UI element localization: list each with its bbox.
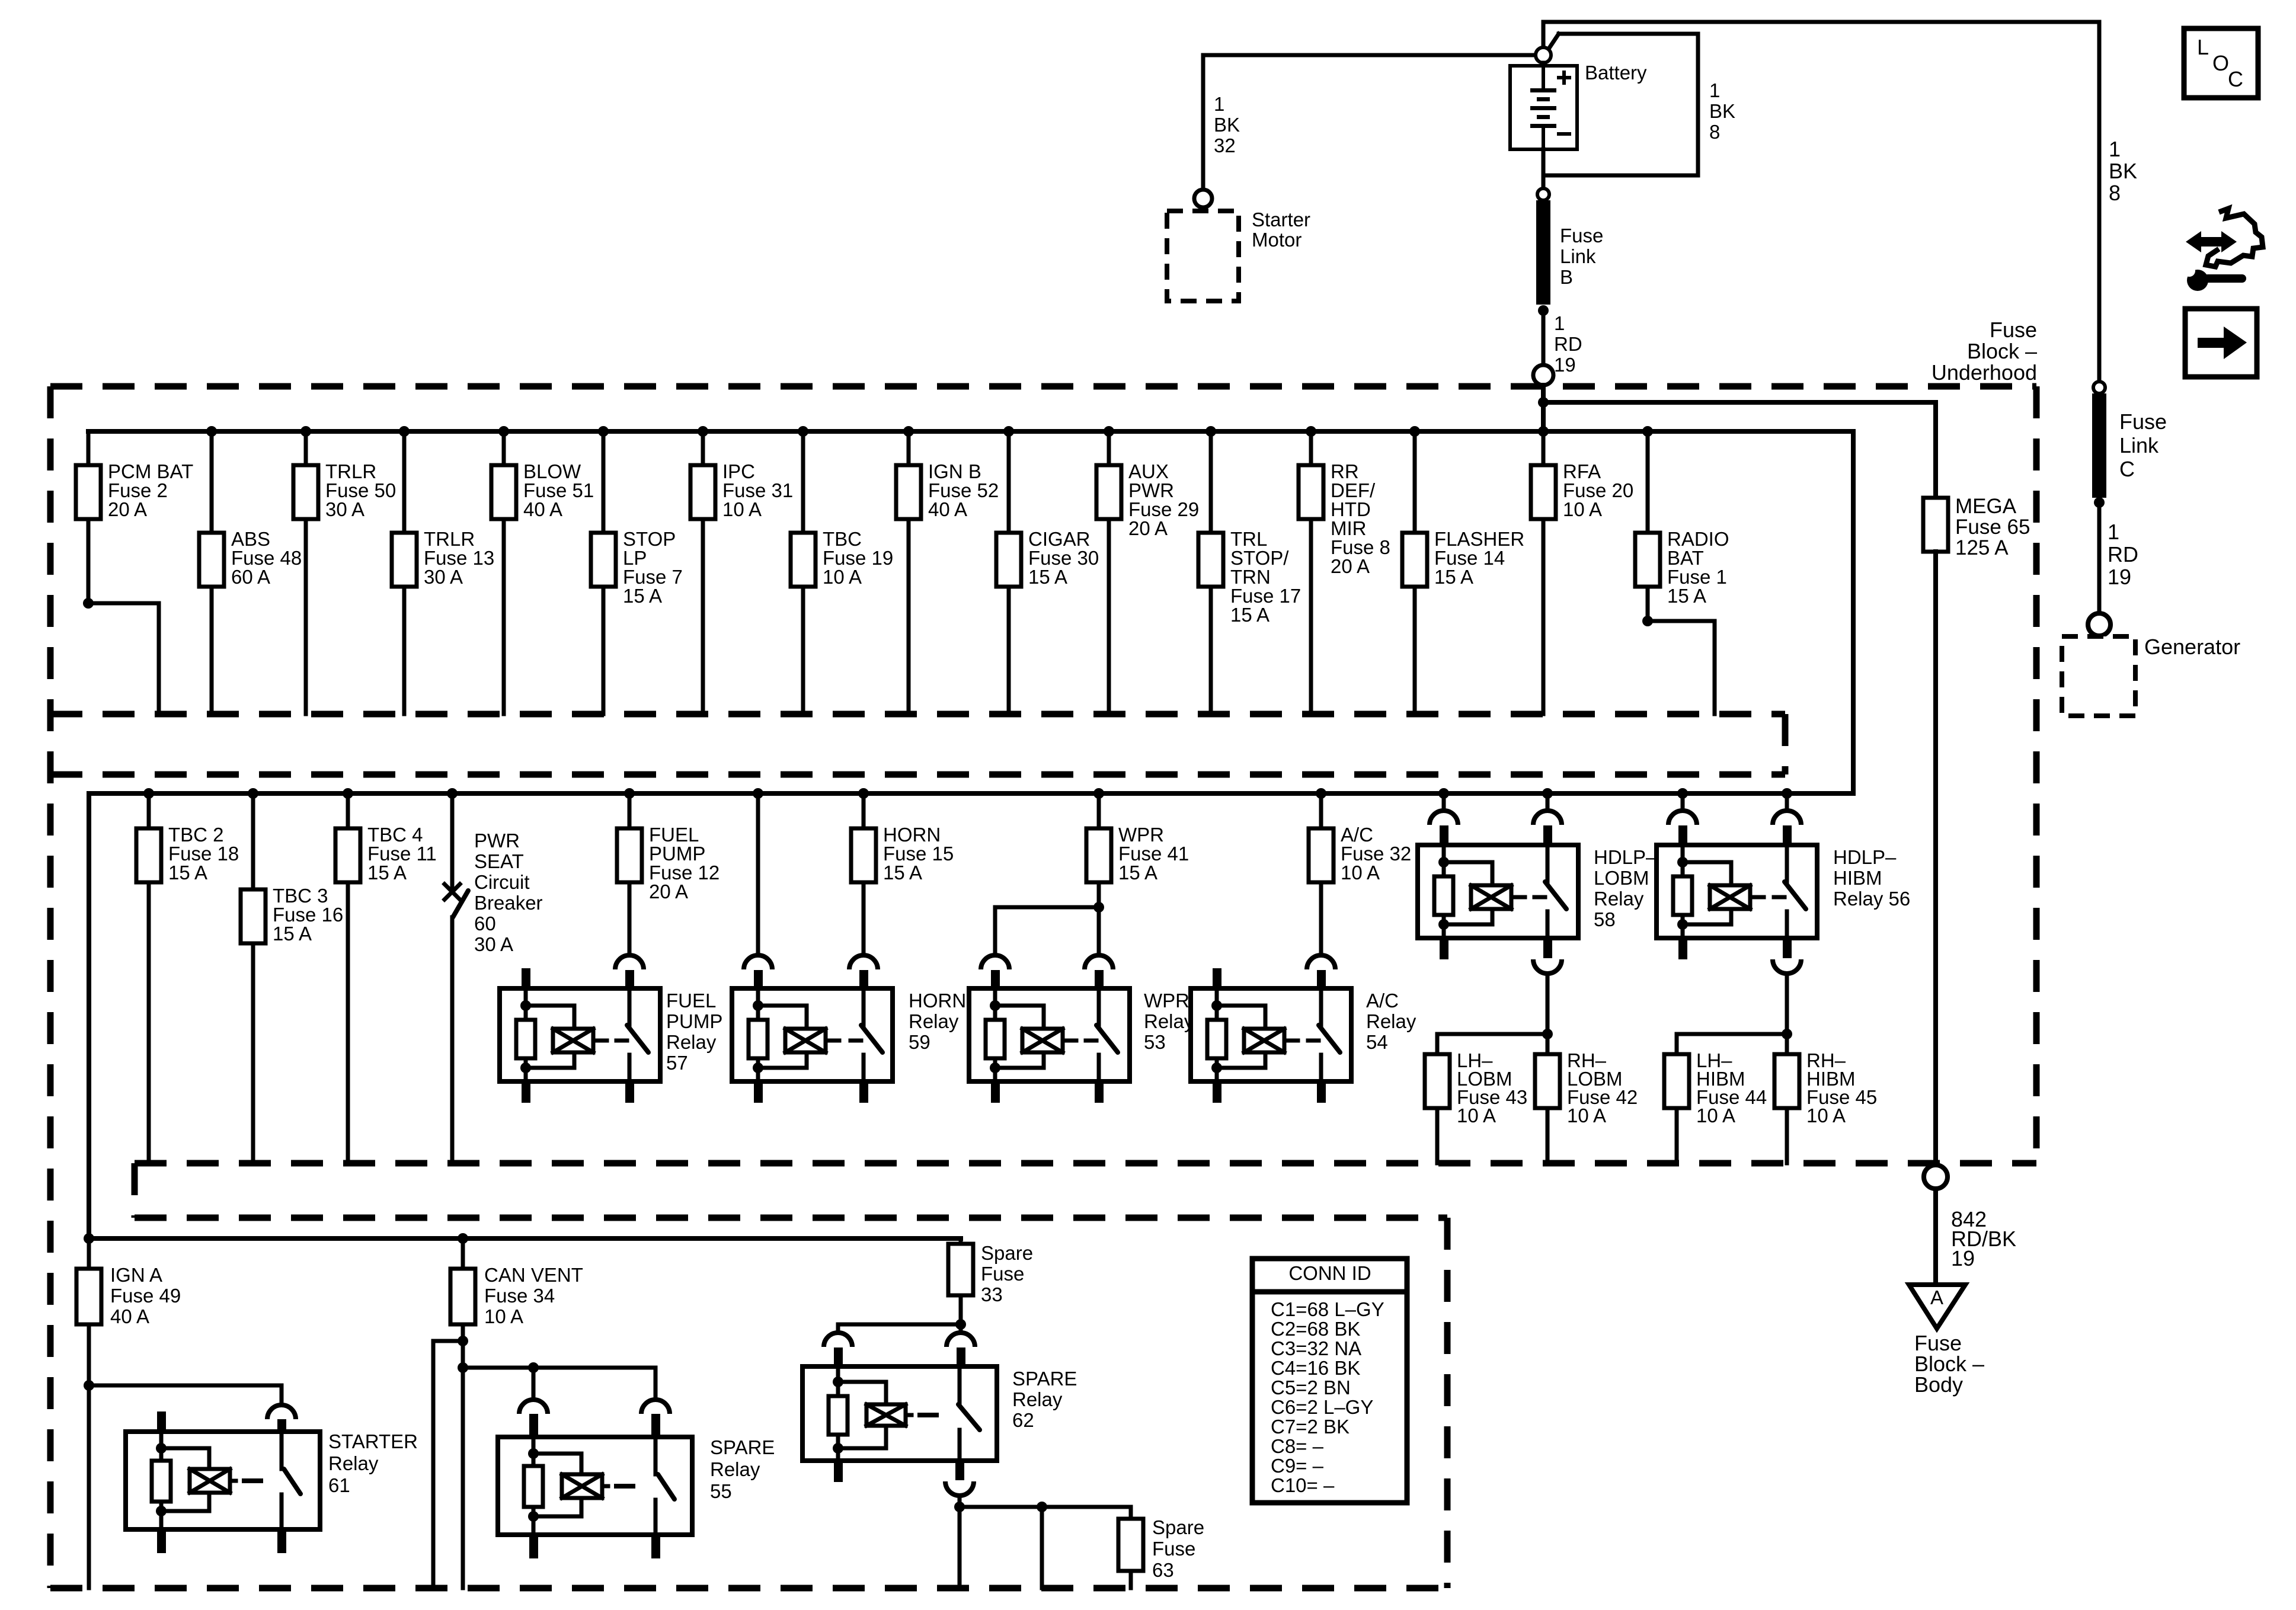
fuse HORN Fuse 15 (851, 828, 876, 882)
wire relay 62 output down (958, 1507, 962, 1588)
relay A/C Relay 54 box (1191, 988, 1351, 1081)
svg-text:CAN VENT: CAN VENT (484, 1264, 583, 1286)
fuse CAN VENT Fuse 34 (450, 1269, 475, 1324)
relay WPR Relay 53 coil loop wire (995, 1006, 1044, 1029)
junction bus2 at FUEL PUMP Fuse 12 (624, 788, 635, 799)
wire TBC 2 Fuse 18 output (147, 882, 151, 1163)
svg-text:B: B (1560, 266, 1573, 288)
relay SPARE Relay 62 box (802, 1366, 997, 1461)
relay HORN Relay 59 coil bottom junction (753, 1062, 763, 1073)
fuse LH-LOBM Fuse 43 (1425, 1054, 1450, 1108)
wire A/C Fuse 32 feed (1319, 793, 1323, 828)
relay HDLP-LOBM Relay 58 coil loop wire (1444, 862, 1492, 885)
svg-text:STARTER: STARTER (328, 1430, 418, 1452)
fuse IPC Fuse 31 (690, 465, 715, 519)
wire MEGA fuse feed (1933, 402, 1938, 498)
wire relay 58 coil feed (1442, 793, 1446, 811)
relay HDLP-LOBM Relay 58 box (1418, 845, 1578, 938)
connector arc relay 58 coil (1430, 811, 1458, 825)
connector circle at fuse block underhood (1533, 365, 1553, 385)
fuse block underhood dashed border bottom (50, 1585, 1447, 1592)
wire spare fuse 33 feed (959, 1238, 963, 1241)
svg-text:1: 1 (1214, 93, 1224, 115)
svg-text:15 A: 15 A (367, 862, 407, 884)
relay SPARE Relay 62 coil-switch dashed link (917, 1413, 948, 1417)
fuse link C (2092, 393, 2106, 498)
svg-text:15 A: 15 A (168, 862, 207, 884)
fuse link B (1536, 200, 1550, 305)
svg-text:20 A: 20 A (108, 498, 147, 520)
svg-text:10 A: 10 A (1806, 1105, 1846, 1126)
svg-text:LOBM: LOBM (1594, 867, 1649, 889)
wire TRLR Fuse 50 feed (304, 431, 308, 465)
fuse PCM BAT Fuse 2 (76, 465, 101, 519)
relay HDLP-HIBM Relay 56 coil resistor (1673, 876, 1692, 915)
wire relay 55 switch drop (654, 1368, 658, 1400)
battery terminal node (1536, 47, 1551, 63)
relay A/C Relay 54 coil solenoid symbol (1244, 1029, 1284, 1052)
wire relay 55 coil drop (532, 1368, 536, 1400)
svg-text:Relay: Relay (710, 1458, 760, 1480)
junction headlamp high beam split (1782, 1029, 1792, 1039)
relay SPARE Relay 62 switch (958, 1366, 962, 1404)
pin relay 56 switch bottom (1783, 938, 1792, 958)
relay HORN Relay 59 switch (862, 988, 866, 1025)
svg-text:HDLP–: HDLP– (1833, 846, 1897, 868)
junction relay 62 output (954, 1502, 965, 1512)
junction bus1 at TBC Fuse 19 (798, 426, 808, 437)
fuse BLOW Fuse 51 (491, 465, 516, 519)
relay FUEL PUMP Relay 57 box (500, 988, 660, 1081)
relay WPR Relay 53 coil resistor (986, 1020, 1005, 1058)
wire branch to LH-LOBM fuse (1437, 1034, 1547, 1054)
relay SPARE Relay 62 coil bottom junction (833, 1443, 843, 1454)
svg-text:54: 54 (1366, 1031, 1388, 1053)
junction PCM BAT output (83, 598, 94, 609)
wire STOP LP Fuse 7 feed (602, 431, 606, 533)
fuse block underhood dashed separator row2 top (50, 772, 1785, 778)
wire RADIO BAT Fuse 1 output (1646, 587, 1650, 621)
svg-text:Relay: Relay (328, 1452, 379, 1474)
relay STARTER Relay 61 coil lead (230, 1479, 236, 1483)
wire relay 58 output (1546, 974, 1550, 1034)
svg-text:59: 59 (909, 1031, 930, 1053)
wire IGN B Fuse 52 output (907, 519, 911, 714)
generator terminal (2088, 613, 2110, 636)
svg-text:33: 33 (981, 1283, 1003, 1305)
svg-text:Breaker: Breaker (474, 892, 543, 914)
relay HDLP-HIBM Relay 56 coil lead (1750, 895, 1764, 900)
junction bus3 at IGN A (84, 1233, 94, 1244)
relay STARTER Relay 61 coil solenoid symbol (190, 1469, 230, 1493)
svg-text:15 A: 15 A (1118, 862, 1157, 884)
relay FUEL PUMP Relay 57 coil solenoid symbol (553, 1029, 593, 1052)
pin relay 59 coil bottom (754, 1081, 763, 1103)
wire to RH-LOBM fuse (1546, 1034, 1550, 1054)
wire relay 58 switch feed (1546, 793, 1550, 811)
svg-text:15 A: 15 A (1434, 566, 1473, 588)
relay HDLP-HIBM Relay 56 coil solenoid symbol (1710, 885, 1750, 909)
wire RH-HIBM output (1785, 1108, 1789, 1163)
relay HORN Relay 59 coil loop wire (758, 1006, 807, 1029)
direction legend box (2185, 309, 2257, 377)
wire branch to relay 62 coil (838, 1324, 961, 1333)
svg-text:Block –: Block – (1967, 339, 2037, 363)
wire TBC 4 Fuse 11 output (346, 882, 350, 1163)
svg-text:19: 19 (1951, 1246, 1975, 1270)
wire IGN A fuse feed (87, 1238, 91, 1269)
battery cells symbol (1542, 66, 1545, 88)
junction bus2 at relay 58 coil (1438, 788, 1449, 799)
junction bus1 at CIGAR Fuse 30 (1003, 426, 1014, 437)
svg-text:C1=68 L–GY: C1=68 L–GY (1271, 1298, 1384, 1320)
wire relay 56 coil feed (1681, 793, 1685, 811)
CONN ID table header separator (1252, 1289, 1407, 1295)
svg-text:Fuse 34: Fuse 34 (484, 1285, 555, 1307)
svg-text:Underhood: Underhood (1932, 360, 2037, 385)
svg-text:C7=2 BK: C7=2 BK (1271, 1416, 1350, 1438)
svg-text:10 A: 10 A (1341, 862, 1380, 884)
pin relay 58 switch (1543, 825, 1552, 844)
pin relay 55 coil bottom (529, 1535, 538, 1558)
connector arc relay 56 coil (1668, 811, 1697, 825)
pin relay 54 switch (1317, 970, 1326, 988)
svg-text:125 A: 125 A (1955, 536, 2009, 559)
fuse IGN A Fuse 49 (76, 1269, 101, 1324)
wire CAN VENT left output (433, 1341, 463, 1588)
svg-text:O: O (2212, 51, 2229, 75)
relay A/C Relay 54 coil lead (1284, 1039, 1298, 1043)
relay WPR Relay 53 switch (1097, 988, 1101, 1025)
svg-text:Link: Link (2119, 433, 2159, 457)
relay SPARE Relay 62 coil solenoid symbol (866, 1404, 906, 1426)
junction bus1 at TRLR Fuse 50 (300, 426, 311, 437)
starter motor terminal (1194, 190, 1212, 207)
wire relay 56 output (1785, 974, 1789, 1034)
svg-text:62: 62 (1012, 1409, 1034, 1431)
pin relay 54 switch bottom (1317, 1081, 1326, 1103)
fuse RR DEF/HTD MIR Fuse 8 (1299, 465, 1323, 519)
battery plus sign (1559, 76, 1569, 79)
svg-text:C8= –: C8= – (1271, 1435, 1324, 1457)
wire 1 RD 19 to fuse block (1542, 311, 1546, 365)
wire PCM BAT output loop (88, 603, 159, 714)
pin relay 57 switch (625, 970, 634, 988)
relay FUEL PUMP Relay 57 coil lead (593, 1039, 607, 1043)
fuse TRLR Fuse 50 (293, 465, 318, 519)
svg-text:Fuse: Fuse (1990, 318, 2037, 342)
junction bus1 at STOP LP Fuse 7 (598, 426, 609, 437)
connector arc relay 55 coil (519, 1400, 548, 1414)
wire TBC 3 Fuse 16 output (251, 943, 255, 1163)
relay HORN Relay 59 coil wire (756, 988, 760, 1020)
relay STARTER Relay 61 coil wire (159, 1432, 164, 1461)
svg-text:1: 1 (2108, 520, 2119, 544)
junction bus1 at FLASHER Fuse 14 (1409, 426, 1420, 437)
wire RFA Fuse 20 output (1542, 519, 1546, 714)
fuse block underhood dashed separator step (1782, 714, 1789, 774)
svg-text:1: 1 (1709, 79, 1720, 101)
relay FUEL PUMP Relay 57 coil top junction (520, 1000, 531, 1011)
wire WPR Fuse 41 feed (1097, 793, 1101, 828)
wire RR DEF/HTD MIR Fuse 8 output (1309, 519, 1313, 714)
connector arc relay 53 coil (981, 955, 1009, 969)
connector arc relay 57 switch (615, 955, 644, 969)
svg-text:BK: BK (1709, 100, 1735, 122)
junction bus2 at TBC 3 Fuse 16 (248, 788, 258, 799)
wire TBC Fuse 19 output (801, 587, 805, 714)
pin relay 62 switch (957, 1347, 965, 1366)
connector circle MEGA output at block boundary (1924, 1165, 1948, 1189)
wire PCM BAT Fuse 2 output (87, 519, 91, 603)
wire LH-HIBM output (1675, 1108, 1679, 1163)
relay HDLP-HIBM Relay 56 switch (1785, 845, 1789, 882)
junction headlamp low beam split (1542, 1029, 1553, 1039)
connector arc relay 59 coil (744, 955, 772, 969)
svg-text:Circuit: Circuit (474, 871, 530, 893)
svg-text:SPARE: SPARE (1012, 1368, 1077, 1390)
wire relay 56 switch feed (1785, 793, 1789, 811)
junction bus2 at TBC 4 Fuse 11 (343, 788, 353, 799)
fuse TBC 2 Fuse 18 (136, 828, 161, 882)
wire TRLR Fuse 13 output (402, 587, 407, 714)
relay SPARE Relay 62 coil resistor (829, 1396, 848, 1435)
battery B+ lead (1542, 63, 1546, 66)
pin relay 56 switch (1783, 825, 1792, 844)
wire branch to LH-HIBM fuse (1677, 1034, 1787, 1054)
pin relay 54 coil bottom (1213, 1081, 1221, 1103)
fuse AUX PWR Fuse 29 (1096, 465, 1121, 519)
relay A/C Relay 54 coil wire (1215, 988, 1219, 1020)
wire BLOW Fuse 51 output (502, 519, 506, 714)
wire 1 BK 8 right vertical to fuse link C (2097, 22, 2102, 382)
connector arc relay 59 switch (849, 955, 878, 969)
junction relay 55 coil branch (528, 1362, 539, 1373)
wire branch to relay 53 coil (995, 907, 1099, 955)
wire FUEL PUMP fuse output (628, 882, 632, 955)
wire TRLR Fuse 13 feed (402, 431, 407, 533)
svg-text:MEGA: MEGA (1955, 495, 2017, 518)
svg-text:A: A (1930, 1286, 1943, 1308)
svg-text:Motor: Motor (1252, 229, 1302, 251)
relay HORN Relay 59 coil lead (826, 1039, 839, 1043)
junction feed to MEGA branch (1538, 397, 1549, 408)
svg-text:63: 63 (1152, 1559, 1174, 1581)
battery box (1510, 66, 1577, 149)
relay SPARE Relay 62 coil top junction (833, 1377, 843, 1387)
wire relay 62 output (958, 1496, 962, 1507)
svg-text:58: 58 (1594, 908, 1616, 930)
fuse ABS Fuse 48 (199, 533, 224, 587)
connector arc relay 58 switch (1533, 811, 1562, 825)
pin relay 58 coil bottom (spare) (1440, 938, 1448, 959)
svg-text:60 A: 60 A (231, 566, 270, 588)
relay HDLP-HIBM Relay 56 coil wire (1681, 845, 1685, 876)
vehicle view icon wrench (2187, 270, 2208, 291)
relay HDLP-HIBM Relay 56 coil top junction (1677, 857, 1688, 868)
svg-text:HORN: HORN (909, 990, 966, 1012)
junction bus1 at RFA Fuse 20 (1538, 426, 1549, 437)
relay WPR Relay 53 coil wire (993, 988, 997, 1020)
svg-text:C: C (2119, 457, 2135, 481)
relay HORN Relay 59 coil solenoid symbol (785, 1029, 826, 1052)
relay STARTER Relay 61 coil-switch dashed link (242, 1478, 270, 1483)
relay SPARE Relay 55 coil bottom junction (528, 1511, 539, 1522)
junction bus2 at relay 56 switch (1782, 788, 1792, 799)
pin relay 58 coil (1440, 825, 1448, 844)
connector arc relay 54 switch (1307, 955, 1335, 969)
relay SPARE Relay 62 coil loop wire (838, 1382, 886, 1404)
fuse A/C Fuse 32 (1309, 828, 1334, 882)
wire HORN relay coil feed (756, 793, 760, 955)
svg-text:10 A: 10 A (1563, 498, 1602, 520)
pin relay 59 switch (859, 970, 868, 988)
svg-text:55: 55 (710, 1480, 732, 1502)
relay HDLP-HIBM Relay 56 coil loop wire (1683, 862, 1731, 885)
fuse block underhood dashed border right (2033, 386, 2040, 1163)
relay HDLP-LOBM Relay 58 coil resistor (1434, 876, 1453, 915)
fuse Spare Fuse 63 (1118, 1519, 1143, 1571)
svg-text:57: 57 (666, 1052, 688, 1074)
junction bus2 at HORN Fuse 15 (858, 788, 869, 799)
fuse TRLR Fuse 13 (392, 533, 417, 587)
wire spare output down (1040, 1507, 1044, 1588)
pin relay 57 switch bottom (625, 1081, 634, 1103)
pin relay 62 coil bottom (spare) (834, 1461, 843, 1482)
svg-text:Relay: Relay (1144, 1010, 1194, 1032)
svg-text:RD: RD (2108, 542, 2138, 566)
wire to relay 61 switch (89, 1385, 282, 1405)
circuit breaker 60 PWR SEAT (445, 884, 460, 900)
wire to spare relay 55 (463, 1366, 655, 1370)
svg-text:L: L (2197, 35, 2209, 59)
svg-text:Relay: Relay (1366, 1010, 1416, 1032)
pin relay 59 coil (754, 970, 763, 988)
svg-text:PWR: PWR (474, 830, 520, 852)
relay SPARE Relay 55 switch (654, 1437, 658, 1474)
svg-text:SPARE: SPARE (710, 1436, 775, 1458)
wire TRL STOP/TRN Fuse 17 feed (1209, 431, 1213, 533)
svg-text:Relay: Relay (1012, 1388, 1063, 1410)
junction spare output (1037, 1502, 1047, 1512)
pin relay 61 coil top (spare) (157, 1411, 166, 1432)
connector arc relay 56 switch (1773, 811, 1801, 825)
svg-text:Link: Link (1560, 245, 1596, 267)
svg-text:C5=2 BN: C5=2 BN (1271, 1377, 1351, 1398)
relay HDLP-LOBM Relay 58 coil lead (1511, 895, 1525, 900)
fuse RADIO BAT Fuse 1 (1635, 533, 1660, 587)
svg-text:Relay: Relay (666, 1031, 717, 1053)
wire bus2 left drop to bus3 (87, 793, 91, 1238)
vehicle view icon car outline (2206, 209, 2263, 267)
fuse block underhood dashed border left (47, 386, 54, 1588)
wire ABS Fuse 48 feed (210, 431, 214, 533)
connector arc relay 62 switch output (945, 1481, 974, 1496)
wire RADIO BAT Fuse 1 feed (1646, 431, 1650, 533)
svg-text:PUMP: PUMP (666, 1010, 722, 1032)
junction bus1 at TRL STOP/TRN Fuse 17 (1205, 426, 1216, 437)
direction legend arrow (2198, 338, 2225, 348)
svg-text:Starter: Starter (1252, 209, 1310, 231)
junction bus2 at WPR Fuse 41 (1093, 788, 1104, 799)
pin relay 55 coil (529, 1414, 538, 1437)
junction bus2 at relay 58 switch (1542, 788, 1553, 799)
fuse STOP LP Fuse 7 (591, 533, 616, 587)
relay SPARE Relay 55 coil resistor (524, 1466, 543, 1507)
svg-text:15 A: 15 A (1667, 585, 1706, 607)
relay HORN Relay 59 box (732, 988, 893, 1081)
svg-text:Battery: Battery (1585, 62, 1647, 84)
relay SPARE Relay 55 coil solenoid symbol (562, 1474, 602, 1498)
pin relay 62 switch bottom (955, 1461, 964, 1480)
svg-text:40 A: 40 A (110, 1305, 149, 1327)
wire TRLR Fuse 50 output (304, 519, 308, 714)
pin relay 53 coil bottom (991, 1081, 1000, 1103)
wire TBC 3 Fuse 16 feed (251, 793, 255, 889)
wire branch to MEGA fuse (1543, 400, 1936, 405)
wire MEGA fuse output 842 feed (1933, 552, 1938, 1165)
wire AUX PWR Fuse 29 output (1107, 519, 1111, 714)
svg-text:Body: Body (1914, 1372, 1963, 1397)
relay HDLP-LOBM Relay 58 switch (1546, 845, 1550, 882)
relay SPARE Relay 55 coil top junction (528, 1448, 539, 1459)
svg-text:CONN ID: CONN ID (1288, 1262, 1371, 1284)
wire battery negative to fuse link B (1542, 149, 1546, 188)
svg-text:10 A: 10 A (823, 566, 862, 588)
svg-text:8: 8 (1709, 121, 1720, 143)
wire AUX PWR Fuse 29 feed (1107, 431, 1111, 465)
relay SPARE Relay 55 box (498, 1437, 692, 1535)
svg-text:19: 19 (1554, 354, 1576, 376)
svg-text:C3=32 NA: C3=32 NA (1271, 1337, 1361, 1359)
pin relay 58 switch bottom (1543, 938, 1552, 958)
relay WPR Relay 53 coil lead (1063, 1039, 1076, 1043)
relay HDLP-LOBM Relay 58 coil top junction (1438, 857, 1449, 868)
fuse IGN B Fuse 52 (896, 465, 921, 519)
relay SPARE Relay 55 coil loop wire (533, 1454, 581, 1474)
relay WPR Relay 53 box (969, 988, 1130, 1081)
relay HDLP-LOBM Relay 58 coil solenoid symbol (1471, 885, 1511, 909)
svg-text:15 A: 15 A (1230, 604, 1269, 626)
svg-text:C9= –: C9= – (1271, 1455, 1324, 1477)
junction bus1 at RADIO BAT Fuse 1 (1642, 426, 1653, 437)
junction RADIO BAT output (1642, 616, 1653, 626)
relay STARTER Relay 61 coil loop wire (161, 1448, 209, 1469)
pin relay 55 switch (651, 1414, 660, 1437)
junction bus2 at HORN relay coil feed (753, 788, 763, 799)
junction bus2 at A/C Fuse 32 (1316, 788, 1326, 799)
wire TBC 4 Fuse 11 feed (346, 793, 350, 828)
junction bus1 at RR DEF/HTD MIR Fuse 8 (1306, 426, 1316, 437)
wire relay 62 output to spare fuse 63 (960, 1507, 1131, 1519)
svg-text:Spare: Spare (981, 1242, 1033, 1264)
wire TBC Fuse 19 feed (801, 431, 805, 533)
wire PCM BAT Fuse 2 feed (87, 431, 91, 465)
LOC legend box (2184, 28, 2258, 98)
wire STOP LP Fuse 7 output (602, 587, 606, 714)
wire IGN B Fuse 52 feed (907, 431, 911, 465)
svg-text:C: C (2228, 67, 2243, 91)
junction bus1 at ABS Fuse 48 (206, 426, 217, 437)
connector arc relay 56 switch output (1773, 959, 1801, 974)
relay A/C Relay 54 coil bottom junction (1211, 1062, 1222, 1073)
svg-text:32: 32 (1214, 135, 1236, 156)
connector arc relay 55 switch (641, 1400, 670, 1414)
svg-text:30 A: 30 A (474, 933, 513, 955)
svg-text:WPR: WPR (1144, 990, 1189, 1012)
wire FLASHER Fuse 14 output (1413, 587, 1417, 714)
fuse block underhood dashed border top (50, 383, 2036, 390)
